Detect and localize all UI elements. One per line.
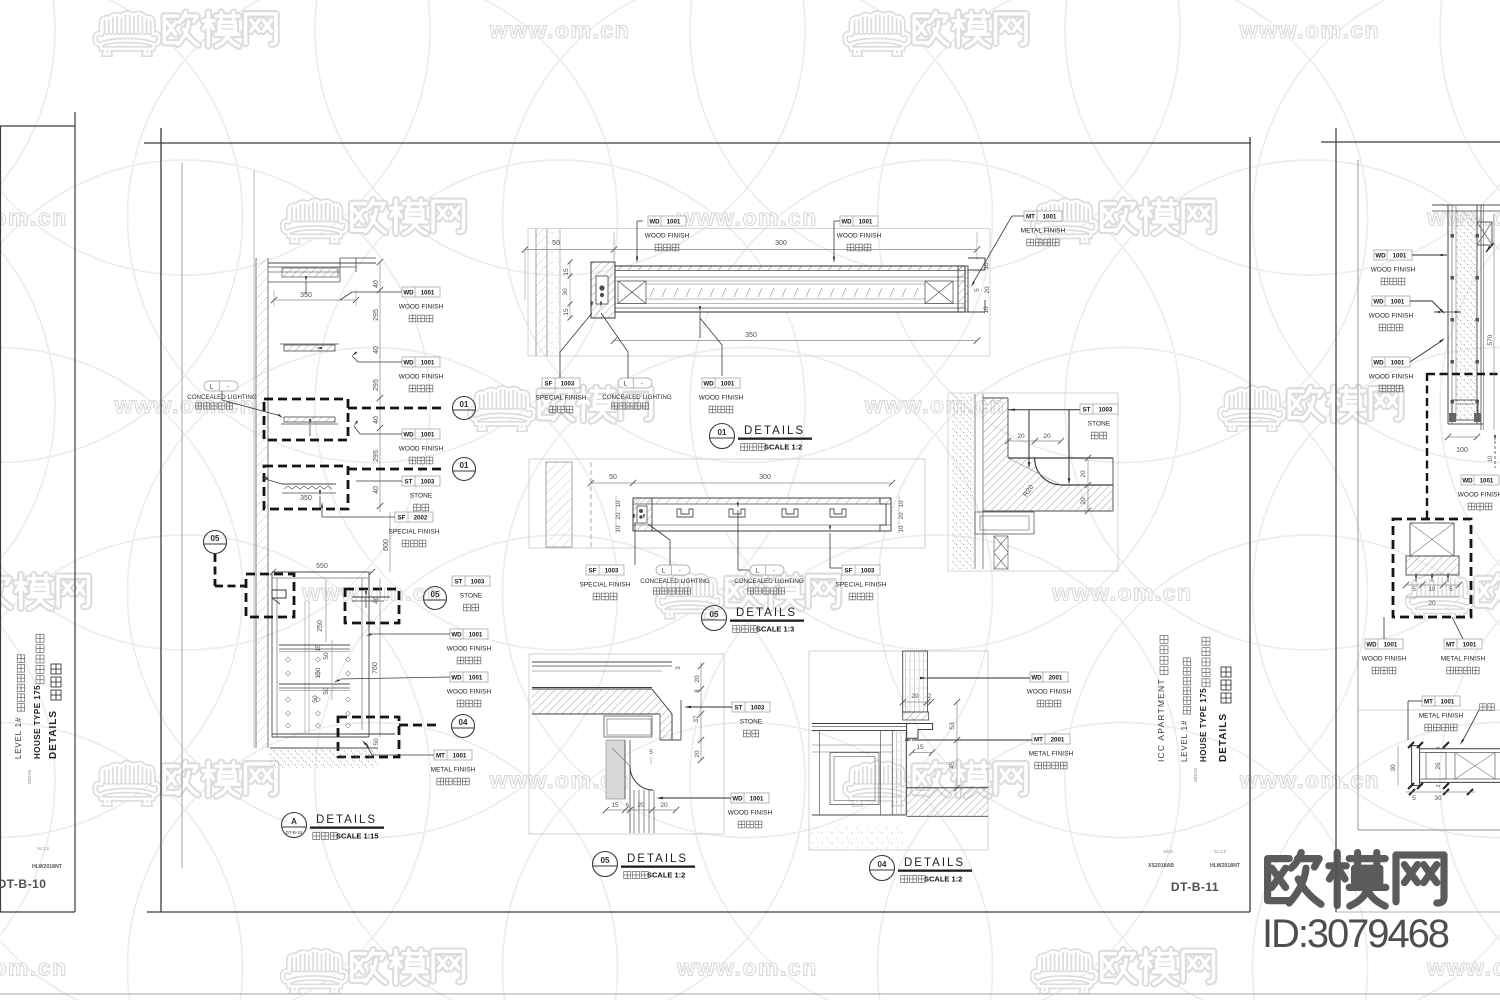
- title 05 middle bubble: [702, 606, 727, 631]
- svg-text:295: 295: [373, 450, 380, 462]
- floor stipple: [270, 748, 378, 768]
- pill L- below: [618, 378, 652, 388]
- corner hatched L stone: [983, 398, 1113, 511]
- ceiling assembly: [268, 262, 376, 264]
- svg-text:WOOD FINISH: WOOD FINISH: [1371, 267, 1416, 274]
- callout box 3: [246, 574, 294, 617]
- label WD 1001 panel-1: [645, 216, 690, 251]
- svg-text:-: -: [773, 567, 775, 574]
- svg-text:8: 8: [694, 689, 701, 693]
- middle wall strip: [546, 462, 572, 547]
- svg-text:SPECIAL FINISH: SPECIAL FINISH: [580, 582, 631, 589]
- callout box 5: [338, 717, 399, 757]
- svg-text:DT-B-10: DT-B-10: [0, 877, 46, 891]
- svg-text:40: 40: [373, 486, 380, 494]
- dim 760: [379, 578, 381, 737]
- pill L- mid-2: [750, 565, 784, 575]
- rightsheet top elements: [1432, 204, 1500, 206]
- svg-text:2: 2: [1436, 784, 1442, 787]
- svg-text:04: 04: [459, 718, 468, 727]
- top panel body: [615, 266, 965, 312]
- top panel dim line: [525, 249, 977, 251]
- leader wall label1: [352, 291, 402, 293]
- label MT 1001 rs-1: [1441, 639, 1486, 674]
- label WD 1001 wall-2: [399, 357, 444, 392]
- svg-text:Sc:1:2: Sc:1:2: [37, 846, 50, 851]
- svg-text:WOOD FINISH: WOOD FINISH: [728, 810, 773, 817]
- svg-text:-: -: [227, 383, 229, 390]
- svg-text:MT: MT: [436, 752, 445, 759]
- svg-text:600: 600: [383, 539, 390, 551]
- svg-text:1001: 1001: [421, 359, 435, 366]
- svg-text:WOOD FINISH: WOOD FINISH: [447, 646, 492, 653]
- middle clips: [677, 509, 693, 517]
- svg-text:WOOD FINISH: WOOD FINISH: [399, 374, 444, 381]
- cove arc: [630, 766, 653, 790]
- svg-text:WD: WD: [1462, 477, 1473, 484]
- main sheet inner extension line: [181, 163, 183, 868]
- svg-text:30: 30: [562, 288, 569, 296]
- corner dims: [1008, 440, 1061, 442]
- svg-text:SPECIAL FINISH: SPECIAL FINISH: [389, 529, 440, 536]
- svg-text:04: 04: [878, 860, 887, 869]
- svg-text:MT: MT: [1034, 736, 1043, 743]
- svg-text:WD: WD: [1373, 298, 1384, 305]
- svg-text:20: 20: [660, 802, 668, 809]
- label WD 1001 wall-3: [399, 429, 444, 464]
- title 01 top bubble: [710, 424, 735, 449]
- pill L- mid-1: [656, 565, 690, 575]
- svg-text:www.om.cn: www.om.cn: [676, 205, 817, 231]
- svg-text:L: L: [624, 380, 628, 387]
- svg-text:1003: 1003: [605, 567, 619, 574]
- right sheet border: [1321, 141, 1500, 143]
- title 05 lowerleft bubble: [593, 852, 618, 877]
- corner detail frame: [948, 393, 1118, 571]
- svg-text:01: 01: [460, 400, 469, 409]
- corner in box5: [352, 733, 395, 735]
- svg-text:CONCEALED LIGHTING: CONCEALED LIGHTING: [734, 578, 804, 585]
- dashed leader to bubble 01b: [348, 468, 441, 471]
- svg-text:WD: WD: [732, 795, 743, 802]
- svg-text:1001: 1001: [1391, 359, 1405, 366]
- bottom page edge line: [0, 993, 1500, 995]
- leader pill to shelf: [221, 391, 223, 400]
- svg-text:HOUSE TYPE 175: HOUSE TYPE 175: [33, 685, 42, 759]
- bottom dims: [606, 809, 676, 811]
- svg-text:05: 05: [211, 534, 220, 543]
- svg-text:1003: 1003: [751, 704, 765, 711]
- callout box 1: [264, 399, 348, 440]
- rightsheet dashed drop: [1426, 373, 1428, 519]
- svg-text:5: 5: [626, 803, 629, 809]
- svg-text:10: 10: [983, 262, 990, 270]
- dashed leader to bubble 04a: [399, 724, 441, 727]
- shelf diamonds: [286, 657, 291, 662]
- svg-text:ICC APARTMENT: ICC APARTMENT: [1156, 678, 1166, 762]
- svg-text:WD: WD: [403, 289, 414, 296]
- svg-text:SCALE 1:3: SCALE 1:3: [756, 625, 794, 634]
- label MT 1001 bar: [1419, 696, 1464, 731]
- svg-text:METAL FINISH: METAL FINISH: [1029, 751, 1074, 758]
- svg-text:05: 05: [431, 590, 440, 599]
- svg-text:300: 300: [775, 240, 787, 247]
- top panel left hatched block: [591, 262, 615, 318]
- svg-text:WOOD FINISH: WOOD FINISH: [1027, 689, 1072, 696]
- svg-text:1001: 1001: [421, 289, 435, 296]
- callout box rs: [1393, 519, 1471, 617]
- countertop lines: [812, 723, 907, 725]
- svg-text:DT-B-11: DT-B-11: [1171, 880, 1219, 894]
- svg-text:26: 26: [1435, 762, 1442, 770]
- svg-text:1001: 1001: [721, 380, 735, 387]
- svg-text:SF: SF: [845, 567, 853, 574]
- bubble 01b: [453, 458, 476, 481]
- svg-text:150: 150: [315, 667, 322, 678]
- svg-text:350: 350: [300, 495, 312, 502]
- dim 350 (ceiling): [274, 299, 356, 301]
- svg-text:WOOD FINISH: WOOD FINISH: [645, 233, 690, 240]
- svg-text:MT: MT: [1424, 698, 1433, 705]
- label MT 1001 panel: [1021, 211, 1066, 246]
- label WD 1001 rs-2: [1369, 296, 1414, 331]
- label WD 1001 wall-1: [399, 287, 444, 322]
- corner wall stipple: [952, 394, 974, 569]
- svg-text:DETAILS: DETAILS: [48, 710, 59, 759]
- label WD 1001 rs-5: [1362, 639, 1407, 674]
- svg-text:1001: 1001: [667, 218, 681, 225]
- leader to WD 2001: [920, 677, 927, 679]
- svg-text:30: 30: [1390, 764, 1397, 772]
- svg-text:20: 20: [911, 693, 919, 700]
- label WD 1001 cab-2: [447, 672, 492, 707]
- svg-text:2002: 2002: [414, 514, 428, 521]
- label WD 1001 below: [699, 378, 744, 413]
- wood post: [903, 651, 928, 712]
- svg-text:WOOD FINISH: WOOD FINISH: [1369, 374, 1414, 381]
- main sheet border: [144, 142, 1251, 144]
- cabinet back verticals: [304, 601, 306, 734]
- svg-text:L: L: [210, 383, 214, 390]
- leaders below-panel: [559, 352, 561, 378]
- svg-text:05: 05: [710, 610, 719, 619]
- middle detail frame: [529, 459, 925, 548]
- svg-text:1003: 1003: [1099, 406, 1113, 413]
- svg-text:WD: WD: [703, 380, 714, 387]
- svg-text:20: 20: [1080, 497, 1087, 505]
- svg-text:1003: 1003: [421, 478, 435, 485]
- svg-text:ST: ST: [1083, 406, 1091, 413]
- label ST 1003 wall: [402, 476, 440, 511]
- rightsheet wall assembly: [1447, 205, 1449, 424]
- svg-text:MT: MT: [1446, 641, 1455, 648]
- right dim chain: [700, 662, 702, 760]
- stone top in box4: [352, 596, 390, 598]
- post dims 20/2: [903, 701, 931, 703]
- svg-text:15: 15: [563, 268, 570, 276]
- svg-text:15: 15: [611, 802, 619, 809]
- label WD 1001 rs-3: [1369, 357, 1414, 392]
- corner leader arrows: [1008, 409, 1082, 411]
- wall hatched strip: [256, 258, 268, 748]
- label SF 1003 mid-left: [580, 565, 631, 600]
- pill L- wall: [204, 381, 238, 391]
- shelf 1: [284, 345, 335, 351]
- rs box content: [1410, 523, 1454, 556]
- svg-text:SCALE 1:2: SCALE 1:2: [647, 871, 685, 880]
- fluted post: [633, 790, 635, 833]
- svg-text:WD: WD: [403, 431, 414, 438]
- svg-text:WOOD FINISH: WOOD FINISH: [447, 689, 492, 696]
- callout box 4: [345, 589, 399, 623]
- svg-text:SPECIAL FINISH: SPECIAL FINISH: [536, 395, 587, 402]
- svg-text:40: 40: [373, 416, 380, 424]
- svg-text:SF: SF: [545, 380, 553, 387]
- svg-text:20: 20: [984, 286, 991, 294]
- svg-text:20: 20: [1017, 433, 1025, 440]
- svg-text:1001: 1001: [469, 674, 483, 681]
- svg-text:45: 45: [949, 761, 956, 769]
- svg-text:10: 10: [1488, 455, 1494, 462]
- svg-text:250: 250: [317, 620, 324, 632]
- bubble 04a: [452, 715, 475, 738]
- svg-text:40: 40: [373, 596, 380, 604]
- svg-text:1001: 1001: [421, 431, 435, 438]
- svg-text:20: 20: [1043, 433, 1051, 440]
- svg-text:100: 100: [1456, 447, 1468, 454]
- label SF 1003 below: [536, 378, 587, 413]
- svg-text:MT: MT: [1026, 213, 1035, 220]
- dashed leader to bubble 01a: [348, 407, 441, 410]
- floor stipple below cabinet: [812, 825, 907, 849]
- svg-text:40: 40: [373, 280, 380, 288]
- label WD 1001 cab-1: [447, 629, 492, 664]
- svg-text:SF: SF: [398, 514, 406, 521]
- top panel right end: [958, 266, 968, 312]
- svg-text:5: 5: [974, 288, 981, 292]
- svg-text:METAL FINISH: METAL FINISH: [431, 767, 476, 774]
- gray block column: [606, 740, 625, 799]
- svg-text:1001: 1001: [453, 752, 467, 759]
- svg-text:www.om.cn: www.om.cn: [1051, 580, 1192, 606]
- svg-text:HLW2018NT: HLW2018NT: [1210, 863, 1241, 869]
- bar dims: [1397, 746, 1399, 786]
- dim 350 below panel: [614, 340, 977, 342]
- svg-text:50: 50: [609, 474, 617, 481]
- svg-text:WD: WD: [649, 218, 660, 225]
- svg-text:10: 10: [983, 306, 990, 314]
- svg-text:760: 760: [372, 662, 379, 674]
- svg-text:2001: 2001: [1051, 736, 1065, 743]
- label ST 1003 ll: [732, 702, 770, 737]
- svg-text:DETAILS: DETAILS: [744, 425, 805, 437]
- dim 250: [325, 580, 327, 642]
- title A DT-B-10 bubble: [282, 813, 307, 838]
- rightsheet 570 dim: [1493, 214, 1495, 430]
- label WD 1001 rs-1: [1371, 250, 1416, 285]
- svg-text:WD: WD: [403, 359, 414, 366]
- svg-text:2018: 2018: [1163, 849, 1173, 854]
- svg-text:LEVEL 1#: LEVEL 1#: [1180, 720, 1189, 762]
- floor hatch right: [907, 788, 988, 817]
- svg-text:05: 05: [601, 856, 610, 865]
- svg-text:HLW2018NT: HLW2018NT: [32, 864, 63, 870]
- svg-text:www.om.cn: www.om.cn: [676, 955, 817, 981]
- assembly edge markers: [1451, 234, 1455, 238]
- svg-text:550: 550: [316, 563, 328, 570]
- label SF 2002 wall: [389, 512, 440, 547]
- svg-text:DETAILS: DETAILS: [904, 857, 965, 869]
- bubble 05a: [204, 531, 227, 554]
- middle right end: [880, 498, 891, 531]
- svg-text:DETAILS: DETAILS: [736, 607, 797, 619]
- counter step: [907, 724, 933, 739]
- label ST 1003 cab: [452, 576, 490, 611]
- top detail wall strip: [536, 229, 547, 356]
- svg-text:DETAILS: DETAILS: [1218, 713, 1229, 762]
- svg-text:STONE: STONE: [1088, 421, 1110, 428]
- svg-text:295: 295: [373, 309, 380, 321]
- R20 fillet: [1035, 458, 1062, 485]
- svg-text:-: -: [641, 380, 643, 387]
- svg-text:1001: 1001: [1043, 213, 1057, 220]
- svg-text:CONCEALED LIGHTING: CONCEALED LIGHTING: [602, 394, 672, 401]
- svg-text:50: 50: [373, 738, 380, 746]
- svg-text:SCALE 1:15: SCALE 1:15: [336, 832, 379, 841]
- svg-text:WOOD FINISH: WOOD FINISH: [1362, 656, 1407, 663]
- svg-text:350: 350: [745, 332, 757, 339]
- lowerleft top lines: [532, 661, 672, 663]
- svg-text:1003: 1003: [471, 578, 485, 585]
- left end rotated dims 15/30/15: [569, 262, 571, 318]
- svg-text:HOUSE TYPE 175: HOUSE TYPE 175: [1199, 688, 1208, 762]
- svg-text:DETAILS: DETAILS: [316, 814, 377, 826]
- svg-text:SF: SF: [589, 567, 597, 574]
- svg-text:ST: ST: [455, 578, 463, 585]
- svg-text:01: 01: [460, 461, 469, 470]
- svg-text:ST: ST: [735, 704, 743, 711]
- svg-text:01: 01: [718, 428, 727, 437]
- middle leaders/labels row: [633, 514, 635, 519]
- svg-text:WOOD FINISH: WOOD FINISH: [399, 304, 444, 311]
- svg-text:WD: WD: [841, 218, 852, 225]
- stone slab hatched: [532, 689, 672, 740]
- svg-text:www.om.cn: www.om.cn: [1426, 955, 1500, 981]
- svg-text:295: 295: [373, 379, 380, 391]
- svg-text:WOOD FINISH: WOOD FINISH: [1369, 313, 1414, 320]
- X braces top panel: [618, 281, 646, 304]
- svg-text:XS2018AB: XS2018AB: [1148, 863, 1174, 869]
- svg-text:WD: WD: [1375, 252, 1386, 259]
- svg-text:1003: 1003: [561, 380, 575, 387]
- svg-text:SCALE 1:2: SCALE 1:2: [764, 443, 802, 452]
- svg-text:STONE: STONE: [410, 493, 432, 500]
- rightsheet dashed corner: [1427, 373, 1500, 375]
- svg-text:2: 2: [928, 694, 932, 700]
- label WD 2001: [1027, 672, 1072, 707]
- svg-text:SD2-04: SD2-04: [27, 769, 32, 784]
- svg-text:300: 300: [759, 474, 771, 481]
- svg-text:1003: 1003: [861, 567, 875, 574]
- svg-text:SPECIAL FINISH: SPECIAL FINISH: [836, 582, 887, 589]
- shelf under slab: [604, 716, 652, 737]
- svg-text:L: L: [662, 567, 666, 574]
- svg-text:www.om.cn: www.om.cn: [1239, 17, 1380, 43]
- svg-text:1001: 1001: [750, 795, 764, 802]
- label WD 1001 panel-2: [837, 216, 882, 251]
- svg-text:50: 50: [312, 695, 319, 703]
- label WD 1001 ll: [728, 793, 773, 828]
- svg-text:WD: WD: [451, 674, 462, 681]
- svg-text:5: 5: [649, 749, 653, 756]
- svg-text:30: 30: [1434, 795, 1442, 802]
- svg-text:1001: 1001: [1480, 477, 1494, 484]
- svg-text:STONE: STONE: [460, 593, 482, 600]
- svg-text:L: L: [756, 567, 760, 574]
- middle dim line: [591, 482, 892, 484]
- cabinet body: [819, 731, 821, 816]
- corner element in box3: [272, 590, 286, 598]
- svg-text:SCALE 1:2: SCALE 1:2: [924, 875, 962, 884]
- cabinet tall box: [271, 572, 273, 737]
- svg-text:www.om.cn: www.om.cn: [489, 17, 630, 43]
- svg-text:570: 570: [1487, 334, 1494, 345]
- svg-text:20: 20: [637, 802, 645, 809]
- svg-text:20: 20: [694, 675, 701, 683]
- label ST 1003 corner: [1080, 404, 1118, 439]
- svg-text:DT-B-10: DT-B-10: [286, 830, 303, 835]
- svg-text:WOOD FINISH: WOOD FINISH: [399, 446, 444, 453]
- left sheet border: [0, 126, 2, 912]
- rs box dims: [1406, 584, 1459, 586]
- lowerright frame: [809, 651, 988, 850]
- svg-text:METAL FINISH: METAL FINISH: [1441, 656, 1486, 663]
- svg-text:3: 3: [675, 666, 682, 670]
- svg-text:METAL FINISH: METAL FINISH: [1021, 228, 1066, 235]
- corner lower assembly: [975, 512, 1034, 534]
- svg-text:WOOD FINISH: WOOD FINISH: [699, 395, 744, 402]
- svg-text:2: 2: [1436, 746, 1442, 749]
- middle panel body: [633, 498, 891, 531]
- svg-text:2001: 2001: [1049, 674, 1063, 681]
- svg-text:WOOD FINISH: WOOD FINISH: [837, 233, 882, 240]
- svg-text:1001: 1001: [1384, 641, 1398, 648]
- svg-text:Sc:1:2: Sc:1:2: [1214, 849, 1227, 854]
- svg-text:METAL FINISH: METAL FINISH: [1419, 713, 1464, 720]
- right sheet inner frame: [1357, 160, 1359, 830]
- lowerleft frame: [529, 654, 724, 834]
- svg-text:A: A: [291, 817, 297, 826]
- rightsheet 100 dim: [1448, 436, 1477, 438]
- svg-text:CONCEALED LIGHTING: CONCEALED LIGHTING: [640, 578, 710, 585]
- svg-text:WD: WD: [451, 631, 462, 638]
- svg-text:www.om.cn: www.om.cn: [0, 205, 68, 231]
- shelves in cabinet: [279, 644, 350, 646]
- big om.cn logo: [1268, 853, 1444, 906]
- top strip hatch ticks: [618, 266, 963, 297]
- svg-text:WD: WD: [1366, 641, 1377, 648]
- svg-text:LEVEL 1#: LEVEL 1#: [14, 717, 23, 759]
- shelf 3 (in box2): [282, 483, 336, 485]
- label MT 2001: [1029, 734, 1074, 769]
- svg-text:10: 10: [1429, 587, 1436, 593]
- svg-text:DETAILS: DETAILS: [627, 853, 688, 865]
- assembly bottom bracket: [1452, 400, 1478, 420]
- svg-text:WOOD FINISH: WOOD FINISH: [1458, 492, 1500, 499]
- label MT 1001 wall: [431, 750, 476, 785]
- svg-text:1001: 1001: [1391, 298, 1405, 305]
- middle panel left block: [633, 498, 652, 531]
